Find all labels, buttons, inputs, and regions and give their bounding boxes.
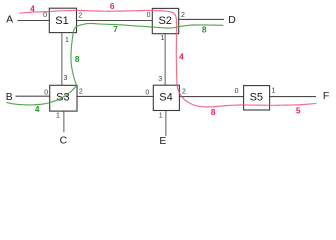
svg-text:1: 1 <box>271 88 275 95</box>
svg-text:8: 8 <box>202 25 207 35</box>
switch S5 <box>244 86 270 110</box>
red highlighted path A to S2 to S4 to F <box>20 10 316 106</box>
svg-text:2: 2 <box>78 13 82 20</box>
switch S2 <box>152 8 178 33</box>
wire B to S3 <box>16 95 50 97</box>
svg-text:4: 4 <box>30 4 35 14</box>
svg-text:1: 1 <box>56 113 60 120</box>
switch S3 <box>50 85 77 111</box>
svg-text:0: 0 <box>44 90 48 97</box>
green highlighted path B to S3 to S1 to S2 <box>7 23 223 104</box>
wire A to S1 <box>18 20 50 22</box>
wire S3 to C vertical <box>63 111 65 132</box>
svg-text:F: F <box>323 91 329 102</box>
svg-text:5: 5 <box>296 106 301 116</box>
svg-text:B: B <box>6 92 13 103</box>
svg-text:S2: S2 <box>158 15 171 27</box>
svg-text:0: 0 <box>235 88 239 95</box>
switch S1 <box>49 8 76 32</box>
svg-text:3: 3 <box>158 76 162 83</box>
svg-text:4: 4 <box>179 51 184 61</box>
switch S4 <box>153 85 179 110</box>
svg-text:2: 2 <box>79 89 83 96</box>
svg-text:S5: S5 <box>250 91 263 103</box>
svg-text:3: 3 <box>64 75 68 82</box>
svg-text:7: 7 <box>113 24 118 34</box>
wire S2 to S4 vertical <box>164 34 166 85</box>
wire S4 to S5 <box>179 96 243 98</box>
wire S2 to D <box>179 18 224 20</box>
svg-text:A: A <box>6 14 13 25</box>
svg-text:0: 0 <box>147 12 151 19</box>
svg-text:4: 4 <box>35 104 40 114</box>
svg-text:1: 1 <box>160 35 164 42</box>
svg-text:0: 0 <box>145 89 149 96</box>
svg-text:8: 8 <box>75 54 80 64</box>
svg-text:C: C <box>60 136 68 147</box>
svg-text:2: 2 <box>182 89 186 96</box>
svg-text:S4: S4 <box>159 91 172 103</box>
svg-text:D: D <box>228 15 236 26</box>
svg-text:6: 6 <box>110 1 115 11</box>
svg-text:8: 8 <box>211 107 216 117</box>
wire S5 to F <box>270 96 316 98</box>
wire S4 to E vertical <box>165 111 167 137</box>
wire S1 to S2 <box>77 20 153 22</box>
svg-text:E: E <box>159 136 166 147</box>
svg-text:1: 1 <box>159 112 163 119</box>
svg-text:S1: S1 <box>55 15 68 27</box>
svg-text:2: 2 <box>181 12 185 19</box>
svg-text:1: 1 <box>65 37 69 44</box>
svg-text:0: 0 <box>43 12 47 19</box>
wire S3 to S4 <box>77 95 153 97</box>
wire S1 to S3 vertical <box>61 33 63 86</box>
